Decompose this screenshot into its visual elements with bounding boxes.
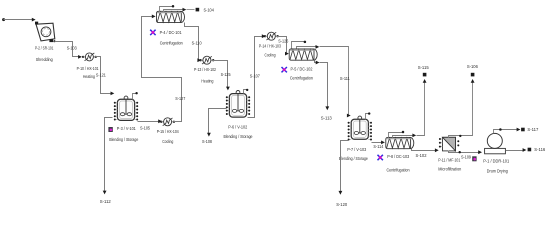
svg-text:Blending / Storage: Blending / Storage (224, 134, 253, 140)
svg-text:S-114: S-114 (373, 144, 383, 150)
heater P-10 / HX-101 (82, 56, 84, 58)
svg-text:P-6 / V-102: P-6 / V-102 (228, 125, 247, 131)
svg-text:Blending / Storage: Blending / Storage (109, 137, 138, 143)
S-106 port square (471, 73, 475, 77)
svg-text:Centrifugation: Centrifugation (290, 76, 313, 82)
wire S-106 microfilter top out, up (449, 81, 473, 138)
svg-text:S-105: S-105 (140, 125, 150, 131)
centrifuge P-8 / DC-103 (407, 137, 414, 148)
svg-text:P-1 / DDR-101: P-1 / DDR-101 (483, 159, 509, 165)
vent stub with dot on V-102 (244, 90, 247, 94)
svg-text:Drum Drying: Drum Drying (487, 169, 508, 175)
svg-text:P-5 / DC-102: P-5 / DC-102 (291, 67, 313, 73)
svg-text:P-2 / SR-101: P-2 / SR-101 (35, 45, 54, 51)
svg-text:P-11 / MF-101: P-11 / MF-101 (438, 157, 460, 163)
wire S-109 microfilter to drum dryer (449, 151, 481, 153)
svg-text:P-14 / HX-103: P-14 / HX-103 (259, 44, 281, 50)
vessel P-7 / V-103 (358, 116, 362, 120)
svg-text:S-120: S-120 (336, 202, 347, 208)
svg-text:S-115: S-115 (418, 65, 429, 71)
wire S-127 cooler up to centrifuge DC-101 feed (142, 17, 182, 122)
wire S-112 V-101 bottom out, down (105, 118, 113, 193)
svg-text:Centrifugation: Centrifugation (387, 167, 410, 173)
wire S-116 drum dryer right out (506, 150, 525, 152)
svg-text:S-117: S-117 (527, 127, 538, 133)
wire S-104 DC-101 top out (164, 10, 185, 12)
svg-text:S-106: S-106 (467, 64, 478, 70)
wire S-108 V-102 left out, down (209, 109, 227, 135)
svg-text:S-104: S-104 (203, 7, 214, 13)
S-117 port square (521, 128, 525, 132)
drum dryer P-1 / DDR-101 (485, 148, 506, 153)
vessel P-3 / V-101 (124, 96, 128, 100)
svg-text:S-103: S-103 (67, 45, 77, 51)
svg-text:P-13 / HX-102: P-13 / HX-102 (194, 67, 216, 73)
svg-text:S-111: S-111 (340, 76, 350, 82)
svg-text:P-4 / DC-101: P-4 / DC-101 (160, 30, 182, 36)
svg-text:S-127: S-127 (175, 96, 185, 102)
x-icon DC-101 (150, 30, 155, 35)
shredder P-2 / SR-101 (36, 23, 55, 41)
S-104 port square (196, 8, 200, 12)
x-icon DC-103 (378, 155, 383, 160)
vent stub with dot on V-103 (366, 114, 369, 120)
S-115 port square (423, 73, 427, 77)
vent stub with dot on DC-103 (389, 133, 403, 138)
svg-text:P-8 / DC-103: P-8 / DC-103 (387, 154, 409, 160)
wire S-113 DC-102 bottom out, down (315, 61, 318, 63)
svg-text:Cooling: Cooling (162, 139, 173, 145)
svg-text:Heating: Heating (201, 78, 213, 84)
x-icon DC-102 (282, 67, 287, 72)
wire S-102 DC-103 bottom to microfilter (412, 149, 437, 151)
wire S-111 DC-102 top out to vessel V-103 (297, 47, 318, 49)
magenta proc icon near V-101 (108, 127, 112, 132)
heater P-13 / HX-102 (199, 59, 201, 61)
S-116 port square (528, 148, 532, 152)
svg-text:Microfiltration: Microfiltration (438, 167, 461, 173)
svg-text:S-125: S-125 (221, 72, 231, 78)
svg-text:S-121: S-121 (96, 73, 106, 79)
svg-text:P-3 / V-101: P-3 / V-101 (117, 126, 136, 132)
wire S-120 V-103 bottom out, down (341, 141, 349, 193)
svg-text:S-126: S-126 (278, 38, 288, 44)
centrifuge P-5 / DC-102 (310, 49, 317, 60)
vent stub with dot on DC-101 (160, 7, 173, 12)
wire S-121 heater to vessel V-101 (96, 57, 113, 94)
svg-text:P-15 / HX-104: P-15 / HX-104 (157, 129, 179, 135)
vent stub with dot on DC-102 (292, 42, 305, 49)
svg-text:Blending / Storage: Blending / Storage (339, 156, 368, 162)
vessel P-6 / V-102 (236, 91, 240, 95)
svg-text:P-7 / V-103: P-7 / V-103 (347, 147, 366, 153)
svg-text:Centrifugation: Centrifugation (160, 41, 183, 47)
svg-text:Cooling: Cooling (265, 53, 276, 59)
cooler P-15 / HX-104 (160, 121, 162, 123)
wire feed to shredder (4, 19, 34, 21)
microfilter P-11 / MF-101 (443, 137, 456, 151)
svg-text:P-10 / HX-101: P-10 / HX-101 (77, 66, 99, 72)
wire S-107 V-102 to cooler HX-103 (248, 37, 265, 118)
svg-text:S-108: S-108 (202, 139, 212, 145)
feed stream S-101 inlet dot (2, 18, 5, 21)
svg-text:S-116: S-116 (534, 147, 545, 153)
svg-text:S-112: S-112 (100, 199, 111, 205)
wire S-114 V-103 to centrifuge DC-103 feed (372, 142, 384, 144)
svg-text:S-110: S-110 (192, 41, 202, 47)
magenta proc icon near DDR-101 (472, 156, 476, 161)
svg-text:Shredding: Shredding (36, 57, 53, 63)
wire S-103 shredder to heater HX-101 (53, 40, 55, 42)
svg-text:Heating: Heating (83, 74, 95, 80)
svg-text:S-113: S-113 (321, 116, 332, 122)
wire S-105 V-101 to cooler HX-104 (138, 121, 161, 123)
wire S-115 DC-103 top out, up (393, 136, 415, 138)
wire S-126 cooler to centrifuge DC-102 feed (277, 37, 288, 54)
vent stub with dot on V-101 (133, 94, 136, 100)
cooler P-14 / HX-103 (264, 35, 266, 37)
svg-text:S-109: S-109 (461, 155, 471, 161)
wire S-117 drum dryer top out (494, 130, 519, 134)
centrifuge P-4 / DC-101 (177, 11, 184, 22)
svg-text:S-102: S-102 (416, 153, 427, 159)
wire S-125 heater to vessel V-102 (213, 61, 228, 89)
svg-text:S-107: S-107 (250, 73, 260, 79)
wire S-110 DC-101 bottom to heater HX-102 (185, 23, 200, 61)
